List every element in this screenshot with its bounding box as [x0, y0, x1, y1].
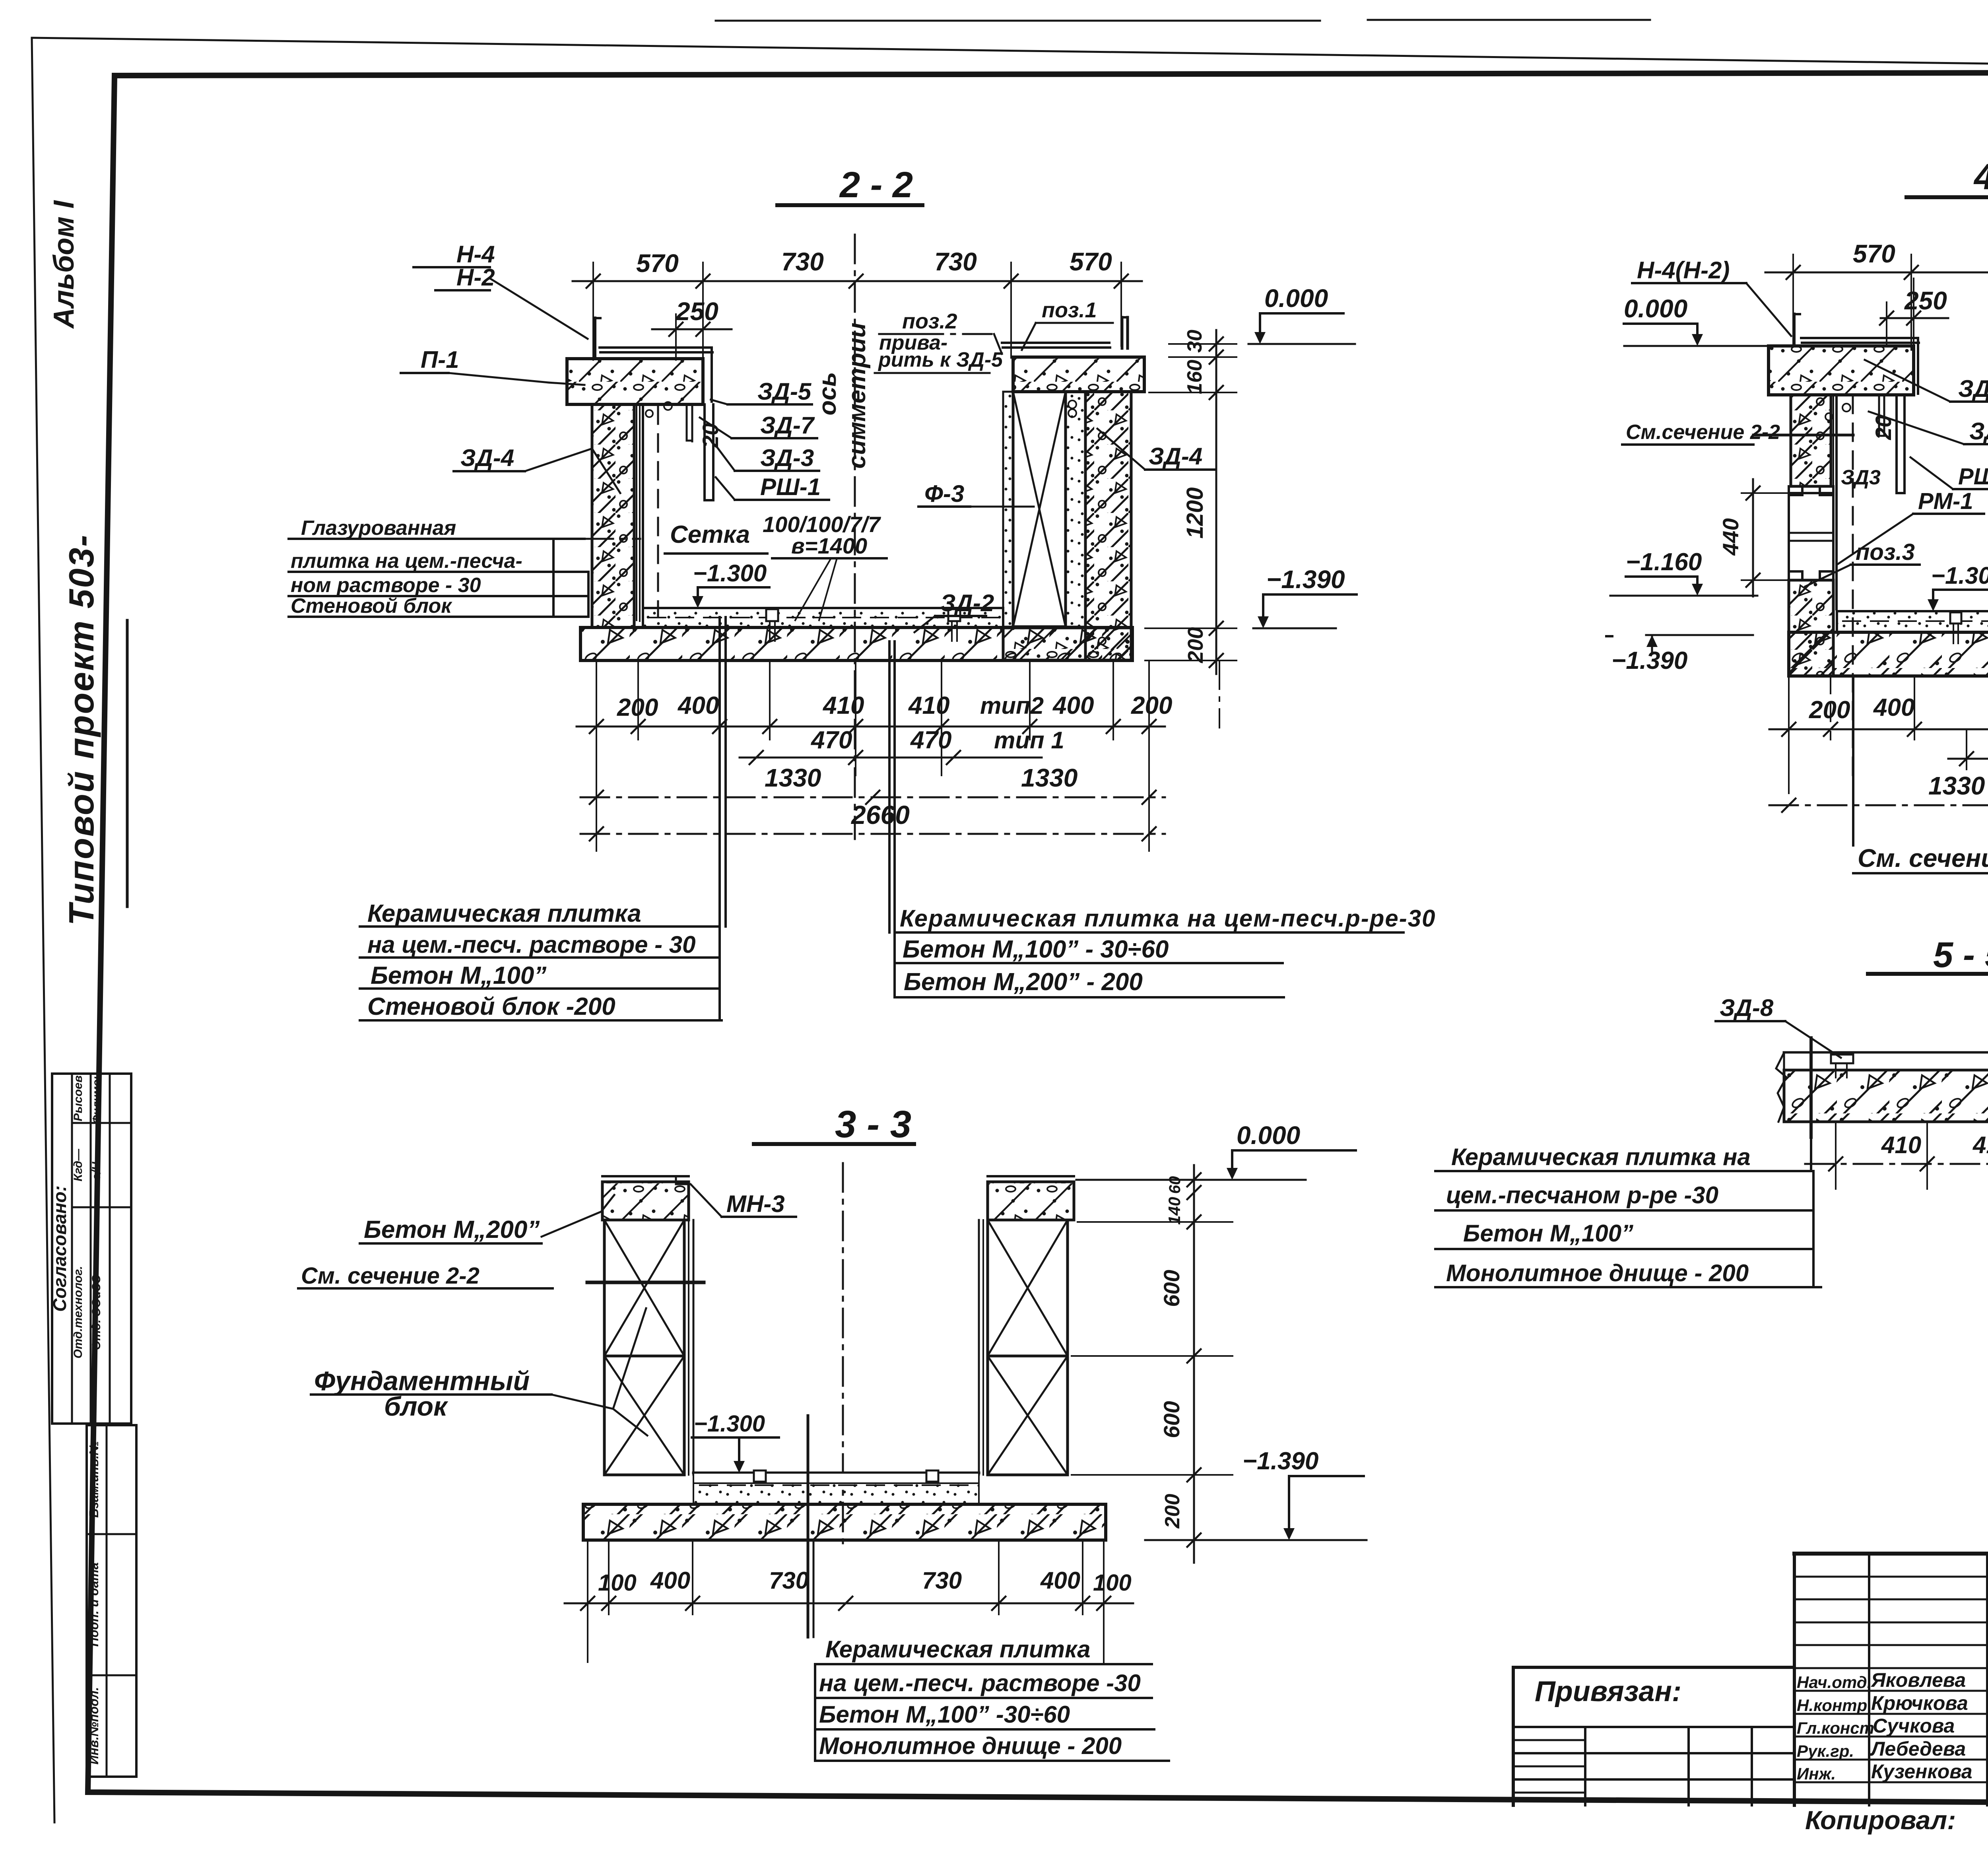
level 0.000 3-3 — [1232, 1149, 1356, 1152]
svg-text:рить к ЗД-5: рить к ЗД-5 — [878, 348, 1003, 371]
svg-text:Отд. ЭОиЗО: Отд. ЭОиЗО — [90, 1274, 103, 1350]
bottom dims 3-3 — [565, 1603, 1133, 1604]
svg-text:ЗД-4: ЗД-4 — [460, 445, 514, 471]
right coping slab — [1013, 357, 1144, 392]
svg-text:ЗД-7: ЗД-7 — [1969, 418, 1988, 445]
right vertical dims 2-2 — [1215, 330, 1217, 674]
bottom slab 3-3 — [583, 1504, 1106, 1540]
svg-text:Монолитное днище - 200: Монолитное днище - 200 — [1446, 1260, 1749, 1286]
axis 3-3 — [842, 1163, 844, 1551]
right concrete column ZD-4 side — [1085, 392, 1131, 660]
svg-text:730: 730 — [769, 1567, 809, 1594]
svg-text:570: 570 — [1853, 239, 1895, 268]
svg-text:140: 140 — [1165, 1197, 1184, 1225]
svg-text:ЗД-4: ЗД-4 — [1149, 443, 1202, 470]
svg-text:Глазурованная: Глазурованная — [301, 517, 456, 540]
svg-text:Лебедева: Лебедева — [1870, 1738, 1966, 1760]
svg-text:0.000: 0.000 — [1264, 284, 1328, 313]
top dimension line 570/730/730/570 — [573, 280, 1142, 282]
svg-text:Керамическая плитка на цем-пес: Керамическая плитка на цем-песч.р-ре-30 — [900, 905, 1436, 932]
right coping 3-3 — [988, 1182, 1074, 1220]
svg-text:Бетон М„200” - 200: Бетон М„200” - 200 — [904, 968, 1143, 996]
svg-text:1330: 1330 — [1021, 763, 1077, 792]
svg-text:поз.3: поз.3 — [1856, 539, 1915, 565]
svg-text:П-1: П-1 — [421, 346, 459, 373]
svg-text:в=1400: в=1400 — [791, 533, 867, 558]
outer thin border — [32, 38, 1988, 72]
svg-text:30: 30 — [1183, 330, 1206, 353]
title block top edge — [1794, 1552, 1988, 1556]
svg-text:Привязан:: Привязан: — [1535, 1676, 1681, 1707]
floor band 3-3 — [693, 1472, 979, 1474]
svg-text:5 - 5: 5 - 5 — [1933, 935, 1988, 975]
level -1.300 in 3-3 — [739, 1436, 779, 1439]
cast joint strip — [1066, 392, 1085, 627]
svg-text:См.сечение 2-2: См.сечение 2-2 — [1626, 421, 1780, 444]
floor embed — [1950, 612, 1961, 624]
embeds 5-5 — [1831, 1055, 1853, 1063]
leader to spec block C — [807, 1416, 810, 1637]
closure plates on right coping — [1002, 342, 1109, 344]
leader P-1 — [448, 373, 549, 383]
svg-text:410: 410 — [822, 692, 864, 719]
bottom dims 2-2 row4 2660 — [580, 833, 1165, 835]
dim 440 — [1752, 479, 1754, 596]
svg-text:симметрии: симметрии — [843, 322, 871, 468]
svg-text:400: 400 — [650, 1567, 690, 1594]
dims 470 row — [1948, 758, 1988, 760]
hidden dashed line — [1852, 396, 1854, 779]
svg-text:400: 400 — [1873, 694, 1914, 721]
svg-text:ЗД-2: ЗД-2 — [940, 590, 994, 616]
svg-text:Нач.отд.: Нач.отд. — [1797, 1673, 1872, 1692]
svg-text:1330: 1330 — [1928, 771, 1985, 800]
svg-text:1200: 1200 — [1182, 487, 1208, 538]
svg-text:РШ-1: РШ-1 — [1958, 464, 1988, 490]
bottom dims 2-2 row2 470/470 — [740, 757, 1042, 759]
svg-text:Керамическая плитка: Керамическая плитка — [825, 1636, 1090, 1663]
svg-text:−1.300: −1.300 — [1931, 562, 1988, 589]
svg-text:570: 570 — [636, 249, 679, 278]
svg-text:ЗД-5: ЗД-5 — [757, 378, 812, 405]
svg-text:100: 100 — [598, 1570, 637, 1596]
svg-text:Крючкова: Крючкова — [1871, 1692, 1968, 1714]
svg-text:410: 410 — [1972, 1132, 1988, 1158]
left wall block (stenovoy blok) — [592, 404, 634, 627]
privyazan cell — [1513, 1666, 1794, 1669]
rail RSh-1 — [703, 404, 706, 500]
lining left 3-3 — [688, 1220, 689, 1475]
svg-text:400: 400 — [1052, 692, 1094, 719]
svg-text:тип 1: тип 1 — [994, 727, 1064, 754]
soglasovano table — [52, 1074, 131, 1424]
svg-text:Филимон: Филимон — [90, 1073, 103, 1124]
signature table grid — [1793, 1554, 1796, 1805]
revision grid — [1513, 1726, 1794, 1728]
svg-text:Н-2: Н-2 — [456, 264, 495, 291]
svg-text:МН-3: МН-3 — [726, 1191, 785, 1217]
svg-text:410: 410 — [1881, 1132, 1921, 1158]
closure plates — [1801, 337, 1918, 339]
svg-text:ЗД-8: ЗД-8 — [1720, 995, 1774, 1021]
svg-text:цем.-песчаном р-ре -30: цем.-песчаном р-ре -30 — [1446, 1182, 1718, 1208]
svg-text:Яковлева: Яковлева — [1870, 1669, 1966, 1691]
svg-text:200: 200 — [1131, 692, 1172, 719]
right wall foundation blocks 3-3 — [988, 1220, 1068, 1356]
svg-text:Бетон М„100”: Бетон М„100” — [1463, 1220, 1633, 1247]
svg-text:Н-4: Н-4 — [456, 241, 495, 268]
svg-text:Взам.инв.№: Взам.инв.№ — [87, 1441, 101, 1518]
svg-text:−1.390: −1.390 — [1242, 1447, 1318, 1475]
svg-text:на цем.-песч. растворе - 30: на цем.-песч. растворе - 30 — [367, 931, 696, 958]
svg-text:ЗД-5: ЗД-5 — [1958, 375, 1988, 402]
svg-text:Подп. и дата: Подп. и дата — [87, 1562, 101, 1647]
svg-text:ном растворе - 30: ном растворе - 30 — [291, 574, 481, 597]
svg-text:−1.390: −1.390 — [1611, 647, 1687, 674]
bottom monolithic slab 2-2 — [580, 627, 1132, 660]
floor screed band — [643, 608, 1003, 627]
level -1.300 in 4-4 — [1933, 589, 1988, 591]
right vertical dims 3-3 — [1193, 1165, 1195, 1563]
svg-text:Инв.№подл.: Инв.№подл. — [87, 1687, 101, 1765]
dims 1330 row — [1769, 804, 1988, 806]
svg-text:Типовой проект 503-: Типовой проект 503- — [62, 534, 101, 925]
svg-text:Стеновой блок -200: Стеновой блок -200 — [367, 993, 615, 1020]
bolts — [1842, 404, 1850, 412]
level -1.160 — [1610, 595, 1757, 597]
hanger bar — [1878, 395, 1880, 435]
svg-text:730: 730 — [934, 247, 977, 276]
leader to Sm.sechenie 2-2 — [1852, 676, 1854, 845]
svg-text:−1.300: −1.300 — [694, 1411, 765, 1437]
svg-text:с/Н—: с/Н— — [90, 1150, 103, 1181]
bottom dims 5-5 — [1805, 1163, 1988, 1165]
svg-text:тип2: тип2 — [980, 692, 1044, 719]
svg-text:на цем.-песч. растворе -30: на цем.-песч. растворе -30 — [819, 1670, 1141, 1696]
svg-text:Керамическая плитка на: Керамическая плитка на — [1451, 1144, 1751, 1170]
cut line through slab — [1809, 1038, 1813, 1137]
svg-text:730: 730 — [781, 247, 824, 276]
svg-text:См. сечение 2-2: См. сечение 2-2 — [1858, 844, 1988, 872]
svg-text:РШ-1: РШ-1 — [760, 474, 821, 500]
coping slab 4-4 — [1769, 346, 1914, 395]
poz.3 joint blocks — [1789, 493, 1833, 580]
hidden dashed line of coping edge — [657, 406, 659, 616]
right plinth block — [1003, 628, 1132, 660]
svg-text:4 - 4: 4 - 4 — [1973, 157, 1988, 197]
underline of project no — [126, 620, 129, 907]
svg-text:РМ-1: РМ-1 — [1918, 488, 1973, 514]
long leader lines to spec blocks — [718, 617, 721, 1020]
svg-text:ось: ось — [814, 372, 841, 415]
svg-text:Н-4(Н-2): Н-4(Н-2) — [1637, 257, 1730, 284]
svg-text:1330: 1330 — [765, 763, 821, 792]
svg-text:поз.2: поз.2 — [902, 309, 957, 333]
svg-text:Бетон М„200”: Бетон М„200” — [364, 1216, 540, 1243]
leader to corner angle — [490, 278, 588, 339]
axis of symmetry 2-2 — [854, 235, 856, 839]
svg-text:Бетон М„100” - 30÷60: Бетон М„100” - 30÷60 — [903, 936, 1169, 963]
svg-text:400: 400 — [677, 692, 719, 719]
bottom slab 4-4 — [1789, 632, 1988, 676]
floor embed right — [948, 609, 960, 621]
svg-text:470: 470 — [910, 726, 951, 754]
svg-text:20: 20 — [698, 423, 723, 448]
tile lining on left wall — [636, 404, 637, 620]
svg-text:−1.300: −1.300 — [693, 560, 767, 587]
svg-text:Копировал:: Копировал: — [1805, 1805, 1956, 1835]
svg-text:3 - 3: 3 - 3 — [835, 1103, 911, 1146]
svg-text:250: 250 — [676, 297, 718, 326]
svg-text:200: 200 — [1809, 696, 1850, 724]
closure plates ZD-5 on left coping — [600, 346, 712, 349]
mesh dashed line in screed — [648, 617, 1000, 618]
svg-text:Инж.: Инж. — [1797, 1764, 1836, 1783]
anchor bolts circles — [664, 402, 672, 410]
svg-text:Кузенкова: Кузенкова — [1871, 1760, 1972, 1783]
rail RSh-1 — [1895, 395, 1898, 493]
svg-text:410: 410 — [908, 692, 949, 719]
svg-text:Отд.технолог.: Отд.технолог. — [72, 1266, 85, 1359]
slab 5-5 tile band — [1784, 1051, 1988, 1054]
svg-text:0.000: 0.000 — [1624, 294, 1687, 323]
bolt circles right — [1068, 400, 1076, 408]
svg-text:Рысоев: Рысоев — [72, 1075, 85, 1121]
left coping MN-3 — [602, 1182, 689, 1220]
svg-text:Керамическая плитка: Керамическая плитка — [367, 900, 641, 927]
floor screed band 4-4 — [1837, 611, 1988, 632]
lower wall / plinth 4-4 — [1789, 580, 1833, 676]
level -1.300 inside 2-2 — [698, 586, 769, 589]
svg-text:60: 60 — [1166, 1176, 1184, 1194]
svg-text:−1.390: −1.390 — [1266, 565, 1345, 594]
svg-text:600: 600 — [1159, 1270, 1184, 1307]
svg-text:440: 440 — [1718, 518, 1743, 556]
level 0.000 left — [1624, 345, 1771, 347]
svg-text:Бетон М„100” -30÷60: Бетон М„100” -30÷60 — [819, 1701, 1070, 1728]
svg-text:0.000: 0.000 — [1237, 1121, 1300, 1150]
left coping slab P-1 — [567, 359, 703, 404]
svg-text:ЗД3: ЗД3 — [1841, 466, 1881, 489]
svg-text:Бетон М„100”: Бетон М„100” — [371, 962, 546, 989]
angle poz.1 at right end — [1121, 317, 1124, 348]
floor embed left — [766, 609, 778, 621]
lining right 3-3 — [978, 1220, 980, 1475]
top dim line 570/730 — [1765, 272, 1988, 274]
level -1.390 right of 2-2 — [1253, 627, 1336, 629]
slab 5-5 concrete — [1784, 1070, 1988, 1122]
svg-text:470: 470 — [810, 726, 852, 754]
svg-text:Монолитное днище - 200: Монолитное днище - 200 — [819, 1733, 1122, 1759]
svg-text:730: 730 — [922, 1567, 962, 1594]
svg-text:400: 400 — [1040, 1567, 1080, 1594]
svg-text:160: 160 — [1183, 360, 1206, 394]
svg-text:Кгд—: Кгд— — [72, 1148, 85, 1181]
svg-text:600: 600 — [1159, 1401, 1184, 1438]
svg-text:Рук.гр.: Рук.гр. — [1797, 1742, 1854, 1760]
edge angle — [1792, 314, 1796, 344]
svg-text:250: 250 — [1904, 286, 1947, 315]
svg-text:Сетка: Сетка — [670, 521, 750, 548]
right wall tile lining strip — [1003, 392, 1013, 627]
svg-text:См. сечение 2-2: См. сечение 2-2 — [301, 1263, 480, 1289]
svg-text:Сучкова: Сучкова — [1873, 1715, 1955, 1737]
level -1.390 3-3 — [1145, 1539, 1367, 1541]
svg-text:Альбом I: Альбом I — [48, 200, 80, 329]
svg-text:поз.1: поз.1 — [1042, 298, 1097, 322]
svg-text:100: 100 — [1093, 1570, 1132, 1596]
level -1.390 left — [1646, 634, 1753, 636]
inv table — [87, 1425, 136, 1777]
foundation block F-3 (X) — [1013, 392, 1066, 627]
svg-text:Н.контр: Н.контр — [1797, 1696, 1867, 1715]
bottom dims 2-2 row1 — [577, 726, 1165, 728]
left wall foundation blocks 3-3 — [604, 1220, 684, 1356]
svg-text:блок: блок — [384, 1391, 448, 1422]
break symbols — [1776, 1053, 1786, 1122]
svg-text:570: 570 — [1070, 247, 1112, 276]
svg-text:плитка на цем.-песча-: плитка на цем.-песча- — [291, 550, 522, 573]
level 0.000 right of 2-2 — [1248, 343, 1355, 345]
svg-text:ЗД-7: ЗД-7 — [760, 412, 815, 439]
svg-text:ЗД-3: ЗД-3 — [760, 445, 814, 471]
svg-text:200: 200 — [1184, 627, 1208, 663]
edge angle N-4 on left coping — [593, 318, 596, 357]
floor embeds 3-3 — [754, 1470, 766, 1482]
svg-text:−1.160: −1.160 — [1626, 548, 1702, 576]
tile lining — [1833, 395, 1834, 608]
bottom dims 4-4 — [1769, 728, 1988, 730]
svg-text:Стеновой блок: Стеновой блок — [291, 594, 452, 618]
paper edge artifacts — [716, 20, 1320, 22]
wall block 4-4 — [1791, 395, 1831, 486]
svg-text:Согласовано:: Согласовано: — [49, 1185, 70, 1312]
svg-text:2 - 2: 2 - 2 — [839, 165, 913, 205]
svg-text:Ф-3: Ф-3 — [924, 480, 964, 507]
bottom dims 2-2 row3 1330/1330 — [580, 796, 1165, 798]
svg-text:Гл.конст: Гл.конст — [1797, 1719, 1874, 1737]
hanger bars ZD-7 — [686, 404, 688, 441]
svg-text:2660: 2660 — [850, 800, 910, 829]
svg-text:200: 200 — [1161, 1494, 1184, 1529]
